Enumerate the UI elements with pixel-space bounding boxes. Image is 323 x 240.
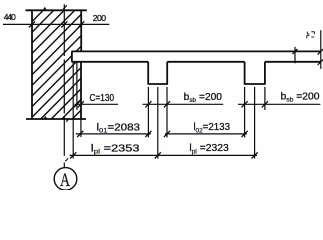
dim row1 segment B [165,133,247,135]
tick row1 at rib1 right [164,131,170,137]
tick row1 at rib1 left [145,131,151,137]
right end: h dim vertical [320,30,322,69]
hatch overshoot tick on wall top [43,8,46,10]
rib 1 left face [147,62,149,84]
tick at (295, slab top) [293,49,298,54]
tick row1 at wall face [77,131,83,137]
rib 2 bottom [244,83,266,85]
svg-text:l02=2133: l02=2133 [194,122,231,134]
dim row segment 2 (rib1 b_sb) [143,103,224,105]
axis slash tick above wall top [63,5,67,9]
tick at axis [61,21,67,27]
wall right edge lower [80,62,82,119]
rib 2 right face [264,62,266,84]
svg-text:A: A [60,169,70,190]
label h= (right end, tiny scan strokes) [307,32,315,39]
rib 1 right face [166,62,168,84]
rib1 ext center [157,87,159,159]
svg-text:lpl =2323: lpl =2323 [189,143,229,155]
dim row segment 3 (rib2 b_sb) [238,103,320,105]
slab soffit segment 1 [72,61,149,63]
svg-text:C=130: C=130 [90,93,115,104]
dim row C / b_sb : segment 1 [75,103,119,105]
tick row2 at rib1 center [155,152,161,158]
svg-text:bsb =200: bsb =200 [184,92,223,104]
top dimension line (440 / 200) [3,23,109,25]
dim row2 l_pl [70,154,258,156]
extension line v3 (wall face) [80,119,82,137]
right end: short vertical ext [294,47,296,63]
svg-text:440: 440 [4,12,16,22]
rib2 ext right [264,87,266,110]
extension line v1 (slab end) [72,63,74,159]
extension line v2 [76,63,78,110]
hatch overshoot below wall bottom [66,119,69,122]
tick row1 at rib2 left [242,131,248,137]
dim row1 l01 : segment A [76,133,151,135]
slab top line [72,50,321,52]
axis line (dash-dot vertical) [63,4,65,167]
tick rib1 left [145,101,151,107]
circle A (axis bubble) [54,168,77,191]
tick at (320.8, slab top) [318,48,323,54]
rib1 ext right [166,87,168,138]
tick rib1 right [164,101,170,107]
svg-text:200: 200 [93,13,106,23]
slab soffit segment 3 [265,61,321,63]
svg-text:bsb =200: bsb =200 [281,91,320,103]
wall left edge [31,10,33,119]
wall right edge upper [80,10,82,51]
wall hatching [0,9,192,119]
slab soffit segment 2 [167,61,244,63]
tick at wall left face [29,21,35,27]
tick row2 at slab end [70,152,76,158]
tick v3 [78,101,84,107]
axis dash slash near circle [65,158,68,161]
tick rib2 right [262,101,268,107]
tick row2 at rib2 center [252,152,258,158]
svg-text:l01=2083: l01=2083 [97,122,141,134]
wall bottom edge [26,118,86,120]
tick at (320.8, soffit) [318,59,323,65]
rib2 ext left [244,87,246,138]
rib2 ext center [254,87,256,159]
rib 2 left face [244,62,246,84]
hatch overshoot tick on wall bottom [44,117,47,119]
svg-text:lpl =2353: lpl =2353 [91,143,140,155]
rib1 ext left [147,87,149,138]
tick rib2 left [242,101,248,107]
tick at wall right face [78,21,84,27]
rib 1 bottom [148,83,169,85]
slab left end [71,51,73,61]
tick v2 [74,101,80,107]
wall top edge [26,9,87,11]
